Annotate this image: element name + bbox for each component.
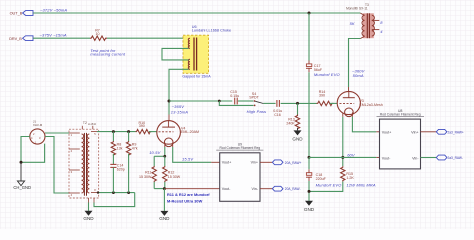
junction OUT_B / C17 branch <box>308 12 311 15</box>
choke U6 highlight box <box>183 35 209 73</box>
resistor R8 <box>111 132 122 156</box>
junction R12 top <box>163 155 166 158</box>
transformer T2 labels <box>83 121 97 126</box>
tube V3 <box>337 91 383 116</box>
svg-text:13-15mA: 13-15mA <box>171 109 188 114</box>
wire R11 top rail <box>154 155 165 157</box>
capacitor C16 <box>273 100 282 117</box>
wire J1 pin2 to T2 <box>45 132 69 134</box>
svg-text:CH_GND: CH_GND <box>13 185 31 190</box>
svg-text:5K: 5K <box>350 21 355 26</box>
choke U6 winding A <box>188 38 190 48</box>
junction GND node <box>163 187 166 190</box>
IC U8 Rod Coleman Filament Reg <box>377 109 425 169</box>
junction R13 node <box>296 102 299 105</box>
svg-text:Vin+: Vin+ <box>251 161 258 165</box>
svg-text:C16: C16 <box>274 113 281 117</box>
wire choke output down to V4 plate node <box>169 69 189 114</box>
resistor R12 <box>163 156 181 188</box>
svg-text:12W Mills MRA: 12W Mills MRA <box>346 183 375 188</box>
svg-text:M-Resist Ultra 30W: M-Resist Ultra 30W <box>167 199 203 204</box>
wire bypass to switch lower contact <box>219 101 253 105</box>
wire T2 bottom rail <box>97 192 135 194</box>
svg-text:~372V ~50mA: ~372V ~50mA <box>40 7 67 12</box>
ground CH_GND <box>13 162 31 190</box>
wire V4 left filament to R12 <box>164 143 166 147</box>
svg-text:EML-20AM: EML-20AM <box>181 130 199 134</box>
wire J1 pin1 to chassis node <box>21 144 45 163</box>
svg-text:GND: GND <box>292 136 303 141</box>
junction plate node <box>168 100 171 103</box>
svg-text:20A_RAW+: 20A_RAW+ <box>285 161 302 165</box>
pin U8 Vout- <box>376 156 379 158</box>
wire C17 upper <box>308 13 310 61</box>
node label ~365V 13-15mA <box>171 104 188 114</box>
wire J1 pin3 to T2 bottom <box>45 137 69 194</box>
svg-text:1.2K: 1.2K <box>346 176 354 180</box>
junction R9 top <box>127 130 130 133</box>
capacitor C18 <box>306 169 341 187</box>
svg-text:13k: 13k <box>117 146 123 150</box>
svg-text:0.15u: 0.15u <box>230 94 239 98</box>
svg-text:50mA: 50mA <box>353 73 364 78</box>
wire plate node to C15 <box>169 100 232 102</box>
svg-text:Monolith SX-11: Monolith SX-11 <box>346 7 368 11</box>
svg-text:Rod Coleman Filament Reg: Rod Coleman Filament Reg <box>220 146 261 150</box>
svg-text:56uF: 56uF <box>314 68 323 72</box>
transformer T3 <box>361 13 375 38</box>
svg-text:Mundorf EVO: Mundorf EVO <box>314 72 340 77</box>
T3 secondary tap 4 <box>372 29 383 34</box>
svg-text:240K: 240K <box>286 121 295 125</box>
svg-text:2a3_RAW-: 2a3_RAW- <box>448 156 463 160</box>
svg-text:Mundorf EVO: Mundorf EVO <box>316 183 342 188</box>
note R11 R12 Mundorf <box>167 192 210 204</box>
port 2a3_RAW+ <box>436 129 464 134</box>
svg-text:15 30W: 15 30W <box>168 175 181 179</box>
resistor R13 <box>286 103 299 129</box>
wire switch common to C16 <box>263 102 275 104</box>
note: test point annotation <box>90 48 126 57</box>
svg-text:Gapped for 15mA: Gapped for 15mA <box>182 75 211 79</box>
choke U6 labels <box>192 25 231 33</box>
IC U9 Rod Coleman Filament Reg <box>216 143 263 202</box>
pin U9 Vin- <box>260 188 272 190</box>
svg-text:Lundahl LL1668 Choke: Lundahl LL1668 Choke <box>192 28 231 32</box>
switch S4 <box>249 92 263 106</box>
ground GND (R13) <box>292 128 303 142</box>
svg-text:15 30W: 15 30W <box>139 175 152 179</box>
svg-text:High Pass: High Pass <box>247 109 267 114</box>
wire T2 secondary top to V4 grid row <box>97 131 136 133</box>
svg-text:GND: GND <box>304 207 315 212</box>
wire C15 to switch upper contact <box>238 100 254 102</box>
svg-text:~375V ~15mA: ~375V ~15mA <box>40 33 67 38</box>
junction 60V rail right <box>341 156 344 159</box>
svg-text:10.5V: 10.5V <box>149 150 160 155</box>
svg-text:DRV_B: DRV_B <box>9 37 22 41</box>
junction R9 bottom <box>127 191 130 194</box>
pin U9 Vout+ <box>211 161 220 163</box>
svg-text:Vin-: Vin- <box>412 156 419 160</box>
junction T2 rail end <box>97 191 99 193</box>
resistor R14 <box>317 90 334 106</box>
svg-text:Rod Coleman Filament Reg: Rod Coleman Filament Reg <box>380 112 421 116</box>
pin U8 Vin+ <box>421 131 437 133</box>
junction bottom rail <box>308 190 311 193</box>
choke U6 core <box>194 38 197 71</box>
wire filament return to U9 Vout- <box>164 188 219 190</box>
wire choke winding A to winding B <box>162 48 189 60</box>
ground GND (T2) <box>83 203 94 222</box>
wire J1 shell to chassis <box>21 137 30 163</box>
wire R7 to choke U6 <box>107 37 189 39</box>
junction C14 bottom <box>112 191 115 194</box>
wire C18 bottom <box>308 181 310 201</box>
svg-text:OUT_B: OUT_B <box>10 12 23 16</box>
resistor R15 <box>341 166 376 187</box>
svg-text:220uF: 220uF <box>316 177 327 181</box>
wire R11 bottom rail <box>154 188 164 190</box>
capacitor C15 <box>230 90 239 104</box>
port DRV_B <box>9 36 33 41</box>
ground GND (C18/R15) <box>304 201 315 212</box>
svg-text:Vout+: Vout+ <box>382 130 392 134</box>
svg-text:620p: 620p <box>117 167 125 171</box>
tube V4 <box>157 121 199 147</box>
svg-text:390: 390 <box>319 94 325 98</box>
connector J1 <box>30 129 45 145</box>
svg-text:EML2a3-Mesh: EML2a3-Mesh <box>359 103 382 107</box>
wire OUT_B to T3 primary (B+ rail) <box>33 12 361 14</box>
pin V4 plate <box>168 115 170 121</box>
svg-text:XLR-M: XLR-M <box>33 123 43 127</box>
svg-text:GND: GND <box>83 216 94 221</box>
junction chassis node <box>20 161 23 164</box>
wire T3 primary bottom to V3 plate <box>349 39 361 88</box>
svg-text:390: 390 <box>139 124 145 128</box>
svg-text:47k: 47k <box>132 146 138 150</box>
T3 secondary tap 8 <box>372 20 383 25</box>
wire V4 right filament to U9 Vout+ <box>172 143 174 147</box>
svg-text:measuring current: measuring current <box>90 52 126 57</box>
transformer T3 labels <box>346 3 369 11</box>
junction 60V rail left <box>308 156 311 159</box>
svg-text:2a3_RAW+: 2a3_RAW+ <box>448 130 464 134</box>
port 20A_RAW+ <box>272 160 301 165</box>
wire T2 secondary return loop <box>94 193 135 207</box>
wire C17 lower to 60V rail <box>308 72 310 157</box>
svg-text:GND: GND <box>159 216 170 221</box>
resistor R10 <box>136 121 152 134</box>
resistor R11 <box>139 156 156 188</box>
pin U8 Vout+ <box>376 131 379 133</box>
junction bypass branch <box>218 100 221 103</box>
port 2a3_RAW- <box>436 155 463 160</box>
wire V3 right filament to U8 Vout+ <box>351 112 353 116</box>
wire C18 top <box>308 157 310 169</box>
port OUT_B <box>10 11 33 16</box>
T2 pin stubs and numbers <box>69 126 97 203</box>
svg-text:Vout+: Vout+ <box>222 161 232 165</box>
svg-text:Vout-: Vout- <box>382 156 391 160</box>
svg-text:T2: T2 <box>83 121 87 125</box>
wire R15 bottom rail <box>309 182 343 192</box>
svg-text:LL1544: LL1544 <box>88 123 97 126</box>
wire V3 left filament to 60V rail and R15 <box>342 112 344 116</box>
pin U9 Vin+ <box>260 161 272 163</box>
svg-text:10: 10 <box>96 32 100 36</box>
ground GND (R11/R12) <box>159 189 170 222</box>
pin U8 Vin- <box>421 157 437 159</box>
resistor R9 <box>126 132 137 193</box>
port 20A_RAW- <box>272 186 300 191</box>
svg-text:20A_RAW-: 20A_RAW- <box>285 187 301 191</box>
svg-text:Vin-: Vin- <box>252 187 259 191</box>
svg-text:Vout-: Vout- <box>222 187 231 191</box>
transformer T2 <box>69 129 99 198</box>
capacitor C14 <box>110 154 125 193</box>
svg-text:15.5V: 15.5V <box>182 157 193 162</box>
node label ~360V 50mA <box>352 68 365 78</box>
connector J1 labels <box>33 120 43 127</box>
junction R8 top <box>112 130 115 133</box>
svg-text:60V: 60V <box>347 152 355 157</box>
wire R10 to V4 grid <box>149 131 157 133</box>
capacitor C17 <box>306 61 340 78</box>
wire C16 to R14 <box>281 102 317 104</box>
svg-text:R11 & R12 are Mundorf: R11 & R12 are Mundorf <box>167 192 210 197</box>
wire DRV_B to R7 <box>33 37 90 39</box>
svg-text:Vin+: Vin+ <box>411 130 418 134</box>
resistor R7 <box>90 28 107 40</box>
svg-text:SPDT: SPDT <box>249 96 259 100</box>
choke U6 winding B <box>188 59 190 69</box>
wire 60V rail <box>309 156 376 158</box>
wire R14 to V3 grid <box>330 102 337 104</box>
